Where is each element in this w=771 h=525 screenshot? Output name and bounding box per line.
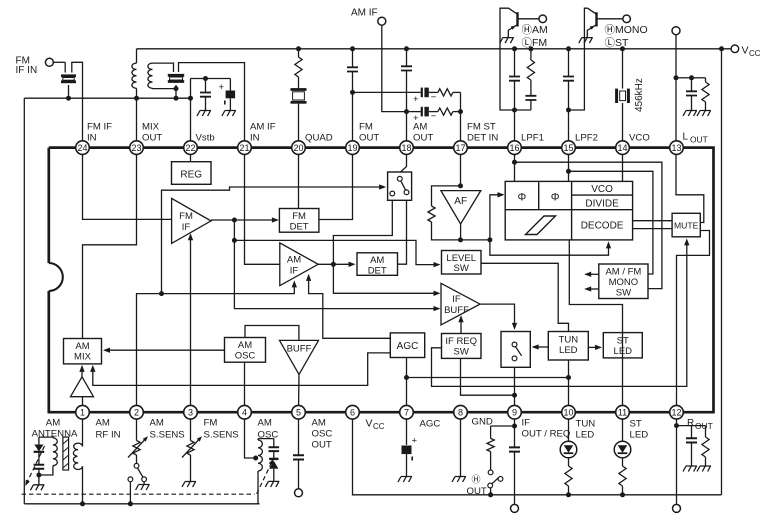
svg-text:1: 1	[80, 408, 85, 418]
svg-text:TUN: TUN	[559, 335, 579, 346]
pin 24	[76, 141, 90, 155]
IF transformer T1 secondary coil	[148, 63, 153, 88]
svg-text:CC: CC	[749, 49, 761, 58]
svg-text:+: +	[413, 94, 419, 105]
wire pin21 to AM IF input	[245, 148, 280, 265]
svg-text:FM: FM	[204, 418, 218, 429]
svg-text:Φ: Φ	[551, 192, 560, 204]
svg-text:18: 18	[401, 143, 411, 153]
svg-text:SW: SW	[454, 263, 469, 274]
antenna primary coil L1	[53, 438, 57, 466]
svg-text:8: 8	[458, 408, 463, 418]
svg-text:IF IN: IF IN	[16, 65, 38, 76]
svg-text:OUT: OUT	[413, 133, 433, 144]
pin 14	[616, 141, 630, 155]
pin 21	[238, 141, 252, 155]
Vcc rail bottom	[353, 419, 722, 495]
svg-text:FM: FM	[179, 211, 193, 222]
capacitor C3 (pin19)	[350, 46, 355, 51]
IC body outline U1	[49, 148, 714, 413]
bottom common rail	[24, 503, 259, 505]
AF feedback resistor	[432, 186, 461, 206]
varicap diode D1 with cap	[38, 437, 40, 444]
svg-text:IF: IF	[182, 222, 191, 233]
svg-text:L: L	[683, 132, 689, 143]
svg-text:MONO: MONO	[609, 277, 639, 288]
svg-text:S.SENS: S.SENS	[204, 430, 239, 441]
wire pin17 to AF	[460, 148, 462, 186]
wire AGC to TUN net	[407, 377, 569, 379]
wire bus corner to transformer	[136, 49, 138, 63]
svg-text:7: 7	[404, 408, 409, 418]
svg-text:DET: DET	[290, 221, 309, 232]
svg-text:R: R	[687, 418, 694, 429]
wire rail branch to S1 arrow	[162, 187, 383, 294]
wire Vstb top rail	[191, 78, 231, 80]
wire AGC to pin7	[406, 358, 408, 413]
capacitor C11 (AM OSC OUT)	[298, 419, 300, 455]
svg-text:14: 14	[617, 143, 627, 153]
transistor Q1 (band select)	[516, 12, 518, 26]
svg-text:5: 5	[296, 408, 301, 418]
TUN LED block	[548, 332, 588, 361]
svg-text:IN: IN	[250, 133, 260, 144]
AGC block	[390, 333, 424, 358]
resistor R1 (QUAD)	[296, 46, 301, 51]
pin 11	[616, 405, 630, 419]
svg-text:S.SENS: S.SENS	[150, 430, 185, 441]
wire filter CF1 ground tap	[68, 85, 70, 98]
wire pin15 branch to MONO SW	[569, 171, 653, 274]
capacitor C14 (R OUT)	[691, 426, 693, 439]
svg-text:SW: SW	[616, 288, 631, 299]
svg-text:AM: AM	[46, 418, 60, 429]
svg-text:RF IN: RF IN	[96, 430, 121, 441]
pin 17	[454, 141, 468, 155]
wire pin20 to FM DET top	[298, 148, 300, 209]
wire amp to AM MIX	[81, 367, 83, 377]
pin 6	[346, 405, 360, 419]
antenna secondary coil L2	[82, 419, 84, 446]
svg-text:Ⓗ: Ⓗ	[472, 475, 481, 485]
svg-text:CC: CC	[373, 422, 385, 431]
svg-text:4: 4	[242, 408, 247, 418]
svg-text:DET: DET	[368, 265, 387, 276]
svg-text:LEVEL: LEVEL	[446, 253, 476, 264]
svg-text:6: 6	[350, 408, 355, 418]
wire antenna coil to ground node	[39, 466, 53, 475]
wire BUFF to pin5	[298, 374, 301, 412]
svg-text:AGC: AGC	[420, 419, 441, 430]
svg-text:MIX: MIX	[74, 352, 92, 363]
svg-text:AM: AM	[150, 418, 164, 429]
svg-text:IF: IF	[290, 266, 299, 277]
wire AM IF out to IF BUFF input1	[333, 264, 438, 293]
wire pin24 to FM IF input	[83, 148, 172, 220]
svg-text:456kHz: 456kHz	[634, 78, 645, 112]
LED1 (TUN)	[568, 419, 570, 441]
PLL block outline	[505, 181, 632, 240]
hysteresis symbol in PLL	[526, 216, 556, 235]
wire pin13 to MUTE	[676, 148, 704, 223]
wire pin18 to switch S1	[401, 148, 407, 172]
variable resistor VR2 (FM S.SENS)	[190, 419, 192, 441]
tuning gang dashed link	[26, 446, 45, 485]
svg-text:BUFF: BUFF	[444, 305, 469, 316]
L OUT terminal	[672, 27, 680, 35]
capacitor C13 (pin9)	[509, 447, 520, 451]
svg-text:OUT: OUT	[690, 135, 708, 145]
Vcc wire down right side	[721, 49, 723, 495]
wire pin14 to VCO	[622, 148, 624, 182]
AM RF input amplifier triangle	[71, 377, 94, 397]
wire pin16 branch to MONO SW	[515, 162, 662, 288]
svg-text:OSC: OSC	[312, 429, 333, 440]
svg-text:+: +	[219, 82, 225, 93]
pin 13	[670, 141, 684, 155]
svg-text:−: −	[431, 111, 437, 122]
svg-text:OUT: OUT	[467, 486, 487, 497]
svg-text:SW: SW	[454, 347, 469, 358]
svg-text:MIX: MIX	[142, 122, 160, 133]
wire pin15 to PLL	[568, 148, 570, 182]
svg-text:AM IF: AM IF	[351, 8, 378, 19]
regulator block REG	[172, 162, 212, 185]
AM OSC tank coil L3	[245, 419, 256, 458]
wire pin22 to REG	[190, 148, 192, 162]
IF-out switch S2 box	[501, 332, 530, 368]
svg-text:LED: LED	[559, 345, 578, 356]
svg-text:OUT: OUT	[359, 133, 379, 144]
svg-text:20: 20	[293, 143, 303, 153]
IF BUFF amplifier triangle	[441, 283, 480, 325]
ground rail wire (top-left)	[24, 97, 190, 99]
svg-text:15: 15	[563, 143, 573, 153]
AM IF amplifier triangle	[280, 243, 318, 286]
svg-text:16: 16	[509, 143, 519, 153]
AM MIX block	[64, 339, 102, 364]
resistor R7 (ST LED)	[619, 466, 626, 486]
wire pin16 to PLL	[514, 148, 516, 182]
svg-text:DIVIDE: DIVIDE	[585, 198, 619, 209]
svg-text:−: −	[431, 92, 437, 103]
wire AM S.SENS rail to AM IF	[137, 282, 295, 412]
AM OSC varicap D2	[273, 439, 275, 448]
electrolytic capacitor C2 (Vstb)	[229, 79, 231, 91]
Vcc bus wire	[137, 48, 732, 50]
wire DECODE to MUTE lower	[633, 228, 673, 230]
electrolytic capacitor C12 (AGC pin7)	[406, 419, 408, 445]
wire FM IF IN to filter	[53, 61, 65, 63]
svg-text:+: +	[412, 436, 418, 447]
variable resistor VR1 (AM S.SENS)	[136, 419, 138, 441]
resistor R6 (TUN LED)	[565, 466, 572, 486]
svg-text:ⓁST: ⓁST	[605, 37, 630, 49]
svg-text:IF REQ: IF REQ	[445, 336, 477, 347]
wire TUN LED to pin10	[568, 360, 570, 412]
svg-text:DET IN: DET IN	[467, 133, 498, 144]
wire filter CF2 out to pin21	[179, 63, 245, 148]
FM IF amplifier triangle	[172, 198, 211, 243]
wire DECODE to MUTE upper	[633, 220, 673, 222]
svg-text:OUT: OUT	[312, 440, 332, 451]
svg-text:Vstb: Vstb	[196, 133, 215, 144]
AM OSC block	[225, 338, 266, 363]
svg-text:11: 11	[618, 408, 627, 418]
svg-text:9: 9	[512, 408, 517, 418]
svg-text:AM / FM: AM / FM	[605, 267, 641, 278]
pin 20	[292, 141, 306, 155]
pin 8	[454, 405, 468, 419]
svg-text:GND: GND	[472, 417, 493, 428]
svg-text:3: 3	[188, 408, 193, 418]
wire FM DET output to pin19	[319, 148, 353, 220]
svg-text:IF: IF	[522, 418, 531, 429]
pin12 R OUT network	[676, 419, 678, 504]
wire secondary top to filter CF2	[153, 63, 174, 72]
FM/AM select switch S1 box	[388, 172, 412, 200]
wire AF output node	[460, 224, 462, 240]
svg-text:LPF1: LPF1	[521, 133, 544, 144]
svg-text:AM: AM	[287, 255, 301, 266]
wire TUN LED to ST LED arrow	[588, 346, 600, 348]
switch SW1 (AM S.SENS)	[134, 463, 139, 468]
wire AM IF terminal down	[382, 25, 407, 111]
pin 12	[670, 405, 684, 419]
wire IF REQ SW to IF BUFF	[460, 317, 462, 334]
svg-text:AGC: AGC	[397, 341, 419, 352]
wire AM OSC to BUFF	[245, 326, 299, 341]
IF REQ SW block	[442, 334, 482, 359]
pin 10	[562, 405, 576, 419]
LED2 (ST)	[622, 419, 624, 441]
pin 15	[562, 141, 576, 155]
svg-text:AF: AF	[454, 196, 467, 207]
svg-text:AM: AM	[75, 341, 89, 352]
svg-text:VCO: VCO	[629, 133, 650, 144]
svg-text:REG: REG	[180, 170, 202, 181]
wire MUTE to pin12	[677, 231, 710, 413]
svg-text:LED: LED	[630, 430, 649, 441]
svg-text:AM: AM	[238, 340, 252, 351]
wire secondary bottom to filter tap	[153, 87, 177, 89]
svg-text:BUFF: BUFF	[287, 344, 312, 355]
svg-text:IF: IF	[452, 294, 461, 305]
pin 9	[508, 405, 522, 419]
pin 23	[130, 141, 144, 155]
svg-text:LED: LED	[576, 430, 595, 441]
wire varicap to antenna coil	[39, 436, 53, 439]
Vcc terminal	[719, 46, 724, 51]
svg-text:AM: AM	[96, 418, 110, 429]
pin 19	[346, 141, 360, 155]
switch SW2 (H OUT)	[488, 483, 493, 488]
svg-text:MUTE: MUTE	[674, 220, 699, 230]
ceramic resonator X2 456kHz	[620, 46, 625, 51]
svg-text:12: 12	[671, 408, 681, 418]
svg-text:AM: AM	[312, 418, 326, 429]
svg-text:V: V	[742, 45, 749, 57]
wire S1 left contact to AM IF out node	[333, 200, 392, 264]
pin 5	[292, 405, 306, 419]
AM/FM MONO SW block	[599, 264, 648, 299]
wire pin23 to AM MIX top	[83, 148, 137, 339]
AF amplifier triangle	[441, 191, 481, 224]
svg-text:22: 22	[185, 143, 195, 153]
svg-text:FM: FM	[359, 122, 373, 133]
wire IF BUFF output to S2	[480, 304, 515, 327]
svg-text:17: 17	[455, 143, 465, 153]
capacitor C9 (LPF2)	[566, 46, 571, 51]
ST LED block	[603, 333, 642, 358]
wire FM IF out down-branch	[234, 220, 438, 309]
capacitor C4 (pin18)	[404, 46, 409, 51]
svg-text:AM IF: AM IF	[250, 122, 276, 133]
pin 7	[400, 405, 414, 419]
svg-text:ⓁFM: ⓁFM	[522, 37, 548, 49]
AM detector block AM DET	[357, 253, 398, 275]
pin 22	[184, 141, 198, 155]
wire S1 right contact to AM DET	[398, 200, 407, 264]
svg-text:23: 23	[131, 143, 141, 153]
BUFF amplifier triangle	[280, 340, 319, 374]
transistor Q2 (mono/stereo select)	[595, 12, 597, 26]
svg-text:FM IF: FM IF	[87, 122, 112, 133]
ferrite core	[63, 437, 69, 470]
svg-text:Φ: Φ	[518, 192, 527, 204]
pin 16	[508, 141, 522, 155]
wire pin3 AGC input to FM IF	[190, 235, 192, 412]
svg-text:ST: ST	[630, 419, 642, 430]
resistor R4 + capacitor C8 (LPF1)	[528, 46, 533, 51]
MONO SW left arrow lower	[586, 288, 599, 290]
wire pin1 to amp	[82, 397, 84, 413]
wire filter CF1 out to pin24	[72, 62, 83, 147]
MUTE block	[672, 213, 700, 237]
svg-text:IN: IN	[87, 133, 97, 144]
wire LEVEL SW to TUN LED	[481, 263, 569, 331]
resistor R8 (R OUT)	[705, 426, 707, 437]
electrolytic capacitor C6 + resistor R3 (pin18 to pin17)	[407, 111, 421, 113]
wire pin22 Vstb riser	[190, 79, 192, 148]
pin 3	[184, 405, 198, 419]
pin 1	[76, 405, 90, 419]
capacitor C10 (L OUT)	[676, 77, 692, 79]
wire AM OSC to AM MIX arrow	[105, 349, 225, 351]
wire AF out to phase det	[490, 195, 502, 240]
ceramic filter CF2 (AM)	[168, 74, 184, 77]
pin 18	[400, 141, 414, 155]
svg-text:OSC: OSC	[235, 351, 256, 362]
wire S2 to pin9	[514, 367, 516, 412]
wire AF out to DECODE	[490, 240, 609, 255]
IF transformer T1 primary coil	[132, 63, 137, 88]
wire AM IF output to AM DET	[318, 263, 352, 265]
electrolytic capacitor C5 + resistor R2 (pin19 to pin17)	[353, 91, 421, 93]
pin 2	[130, 405, 144, 419]
svg-text:AM: AM	[413, 122, 427, 133]
svg-text:QUAD: QUAD	[305, 133, 333, 144]
svg-text:DECODE: DECODE	[581, 221, 624, 232]
svg-text:TUN: TUN	[576, 419, 596, 430]
svg-text:24: 24	[77, 143, 87, 153]
svg-text:19: 19	[347, 143, 357, 153]
svg-text:FM ST: FM ST	[467, 122, 496, 133]
ground pin8	[460, 419, 462, 476]
ceramic filter CF1 (FM)	[61, 74, 76, 77]
wire FM IF out to LEVEL SW	[234, 240, 438, 264]
resistor R5 (L OUT)	[692, 77, 706, 79]
svg-text:V: V	[366, 418, 373, 430]
svg-text:OUT: OUT	[142, 133, 162, 144]
svg-text:13: 13	[671, 143, 681, 153]
svg-text:21: 21	[239, 143, 249, 153]
svg-text:OUT / REQ: OUT / REQ	[522, 429, 571, 440]
svg-text:VCO: VCO	[591, 184, 613, 195]
wire AGC to AM MIX	[93, 353, 391, 386]
wire IF REQ SW bottom to pin9 net	[461, 358, 515, 395]
LEVEL SW block	[442, 251, 482, 275]
svg-text:ⒽMONO: ⒽMONO	[605, 24, 648, 36]
wire AM OSC to pin4	[244, 362, 246, 412]
pin9 output network	[514, 419, 516, 447]
pin 4	[238, 405, 252, 419]
svg-text:LPF2: LPF2	[575, 133, 598, 144]
capacitor C7 (LPF1)	[512, 46, 517, 51]
wire IF REQ net to MUTE	[432, 240, 687, 386]
ceramic discriminator X1 (QUAD)	[291, 88, 307, 91]
MONO SW left arrow upper	[586, 273, 599, 275]
capacitor C1 (Vstb bypass)	[205, 79, 207, 93]
svg-text:ⒽAM: ⒽAM	[522, 24, 548, 36]
svg-text:FM: FM	[292, 211, 306, 222]
svg-text:10: 10	[563, 408, 573, 418]
wire transformer primary to pin23	[136, 88, 138, 147]
ground rail down left side	[23, 98, 25, 504]
wire PLL to ST LED pin11	[569, 240, 622, 412]
FM IF IN terminal	[45, 58, 53, 66]
svg-text:AM: AM	[258, 418, 272, 429]
wire TUN LED to S2 arrow	[533, 346, 548, 348]
FM detector block FM DET	[279, 209, 319, 233]
wire FM IF output to FM DET	[211, 219, 277, 221]
wire AGC to AM IF input2	[309, 276, 391, 339]
svg-text:2: 2	[134, 408, 139, 418]
